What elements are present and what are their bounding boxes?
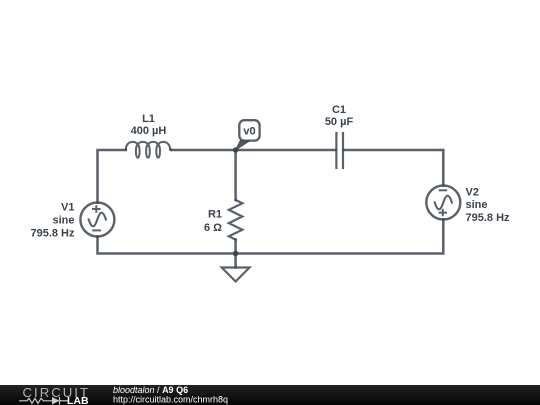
- wire: right vertical lower + bottom wire + left vertical lower: [98, 220, 444, 254]
- svg-text:http://circuitlab.com/chmrh8q: http://circuitlab.com/chmrh8q: [113, 394, 228, 404]
- svg-text:795.8 Hz: 795.8 Hz: [466, 212, 511, 224]
- svg-text:sine: sine: [52, 215, 74, 227]
- wire R1 branch lower + ground stub: [234, 240, 237, 268]
- wire: top-left stub + left vertical upper: [98, 150, 126, 203]
- V1 sine wave: [89, 213, 106, 227]
- svg-text:LAB: LAB: [67, 395, 89, 405]
- logo diode triangle: [52, 397, 60, 405]
- inductor L1: [126, 142, 171, 158]
- svg-text:bloodtalon / A9 Q6: bloodtalon / A9 Q6: [113, 385, 188, 395]
- V1 plus sign: [92, 205, 101, 212]
- v0 flag pointer wedge: [236, 141, 250, 150]
- svg-text:795.8 Hz: 795.8 Hz: [30, 228, 75, 240]
- V2 sine wave: [435, 196, 452, 210]
- wire: inductor to C1 left plate: [171, 149, 335, 152]
- svg-text:C1: C1: [332, 104, 346, 116]
- V2 minus sign: [439, 189, 447, 191]
- svg-text:R1: R1: [208, 209, 222, 221]
- resistor R1 zigzag: [229, 200, 243, 240]
- svg-text:v0: v0: [243, 126, 255, 138]
- svg-text:V2: V2: [466, 186, 479, 198]
- node junction dot top (v0 node): [233, 147, 239, 153]
- svg-text:L1: L1: [142, 113, 155, 125]
- V2 plus sign: [439, 209, 447, 216]
- svg-text:50 µF: 50 µF: [325, 116, 354, 128]
- wire R1 branch upper: [234, 150, 237, 200]
- v0 flag box: [239, 120, 259, 140]
- svg-text:6 Ω: 6 Ω: [204, 222, 222, 234]
- logo resistor squiggle and diode: [19, 397, 68, 405]
- voltage source V1 circle: [80, 203, 114, 237]
- capacitor C1 left plate: [335, 133, 337, 168]
- wire: C1 right plate to top-right corner + right vertical upper: [344, 150, 443, 186]
- V1 minus sign: [92, 229, 101, 231]
- svg-text:400 µH: 400 µH: [131, 125, 167, 137]
- capacitor C1 right plate: [342, 133, 344, 168]
- voltage source V2 circle: [426, 186, 460, 220]
- svg-text:sine: sine: [466, 199, 488, 211]
- svg-text:V1: V1: [61, 202, 74, 214]
- footer bar: [0, 385, 540, 405]
- ground symbol: [222, 268, 250, 282]
- node junction dot bottom: [233, 251, 239, 257]
